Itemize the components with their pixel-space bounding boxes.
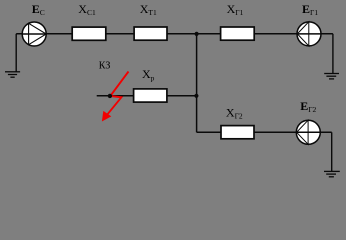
resistor Xp [134,89,167,102]
resistor XC1 [72,27,106,40]
EMF source EG1 (circle with arrow triangle) [297,22,321,46]
junction node: riser to Xp branch [194,94,198,98]
wire: right drop to ground (bottom, EG2) [331,132,333,171]
ground (right top, EG1) [324,74,339,79]
resistor XT1 [134,27,167,40]
wire: right drop to ground (top, EG1) [332,34,334,74]
ground (right bottom, EG2) [324,171,340,176]
resistor XG1 [221,27,255,40]
fault node K3 (short-circuit point) [108,94,112,98]
resistor XG2 [221,126,254,139]
lightning arrow (short circuit) [102,72,129,122]
svg-text:КЗ: КЗ [99,61,111,72]
wire: fault branch (Xp) [97,95,197,97]
wire: left drop to ground [15,34,17,72]
wire: main top bus [16,33,333,35]
junction node: bus tap to middle riser [195,32,199,36]
EMF source Ec (circle with arrow triangle) [22,22,46,46]
wire: branch 2 (XG2) [197,131,332,133]
EMF source EG2 (circle with arrow triangle) [296,120,320,144]
ground (left, system Ec) [5,72,20,77]
wire: middle riser from bus junction down to branch 2 [196,34,198,133]
